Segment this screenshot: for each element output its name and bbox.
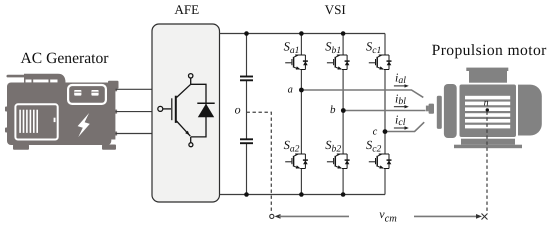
switch Sa2 [285, 154, 308, 169]
junction top rail / DC link [244, 31, 249, 36]
current arrow i_al [394, 85, 406, 87]
dashed tap from node o [247, 112, 272, 211]
node a [299, 88, 304, 93]
generator door [15, 104, 57, 139]
capacitor C2 [240, 139, 253, 143]
motor base upper [461, 139, 515, 145]
svg-text:b: b [330, 104, 336, 116]
generator body [7, 83, 111, 146]
svg-text:Propulsion motor: Propulsion motor [432, 42, 548, 59]
DC bus top rail [220, 33, 386, 35]
current arrow i_cl [394, 127, 406, 129]
VSI leg c wire [384, 34, 386, 195]
AFE box [152, 24, 220, 202]
body bar [175, 96, 177, 123]
emitter slant [177, 121, 191, 136]
diode cathode bar [197, 102, 214, 104]
generator switch 2 [91, 90, 98, 96]
DC bus bottom rail [220, 194, 386, 196]
junction top rail / leg a [299, 31, 304, 36]
wire generator to AFE (3 lines) [116, 89, 153, 133]
diode branch wires [191, 84, 206, 137]
svg-text:VSI: VSI [325, 2, 346, 17]
generator lightning bolt [78, 113, 90, 137]
gate lead [163, 108, 171, 110]
generator feet [13, 145, 29, 150]
dashed line from n [486, 112, 488, 214]
junction top rail / leg b [341, 31, 346, 36]
current arrow i_bl [394, 106, 406, 108]
VSI leg b wire [342, 34, 344, 195]
generator exhaust outlet [108, 81, 119, 89]
generator handle slots [26, 80, 58, 83]
motor plug step1 [426, 106, 429, 112]
diode triangle [198, 104, 214, 118]
svg-text:a: a [288, 85, 293, 96]
vcm right arrowhead [476, 214, 482, 219]
capacitor C1 [240, 77, 253, 81]
junction bottom rail / DC link [244, 192, 249, 197]
switch Sa1 [285, 55, 308, 70]
svg-text:n: n [484, 97, 489, 108]
generator wire nubs [115, 87, 118, 91]
DC link wire [246, 34, 248, 195]
junction bottom rail / leg a [299, 192, 304, 197]
emitter arrowhead [185, 131, 189, 136]
phase line c [385, 122, 424, 131]
switch Sb2 [327, 154, 350, 169]
motor shaft bar [437, 96, 442, 129]
generator handle rail [24, 74, 66, 83]
motor terminal lip [466, 68, 508, 71]
junction bottom rail / leg b [341, 192, 346, 197]
svg-text:AC Generator: AC Generator [21, 50, 110, 67]
node n dot [486, 108, 489, 111]
node b [341, 108, 346, 113]
motor plug step2 [429, 104, 434, 114]
generator grille [19, 110, 90, 137]
generator switch 1 [74, 90, 81, 96]
switch Sc1 [369, 55, 392, 70]
generator rear slab [108, 84, 115, 140]
vcm line left [279, 215, 349, 217]
svg-text:o: o [235, 103, 241, 117]
gate terminal circle [158, 106, 163, 111]
motor fins [465, 96, 510, 129]
collector wire + top circle [190, 78, 192, 84]
vcm left arrowhead [275, 214, 281, 219]
svg-text:AFE: AFE [174, 2, 199, 17]
motor body [460, 85, 517, 138]
VSI leg a wire [300, 34, 302, 195]
generator handle rod [7, 75, 26, 78]
AC generator icon [5, 74, 119, 150]
switch Sc2 [369, 154, 392, 169]
generator door latch [54, 118, 56, 122]
svg-text:c: c [373, 127, 378, 138]
phase line b [343, 110, 425, 112]
phase line a [301, 90, 423, 97]
motor right cap [518, 85, 542, 136]
vcm x marker [482, 214, 488, 220]
collector slant [177, 84, 191, 97]
motor end bell [444, 84, 457, 138]
generator control panel [68, 85, 106, 104]
gate bar [171, 98, 173, 120]
emitter wire + bottom circle [190, 137, 192, 143]
AFE IGBT U1 [158, 74, 215, 147]
node c [383, 129, 388, 134]
switch Sb1 [327, 55, 350, 70]
vcm line right [414, 215, 478, 217]
generator left hinges [5, 107, 8, 112]
motor base lower [454, 145, 522, 149]
vcm left terminal circle [270, 214, 274, 218]
motor terminal box [469, 71, 507, 83]
